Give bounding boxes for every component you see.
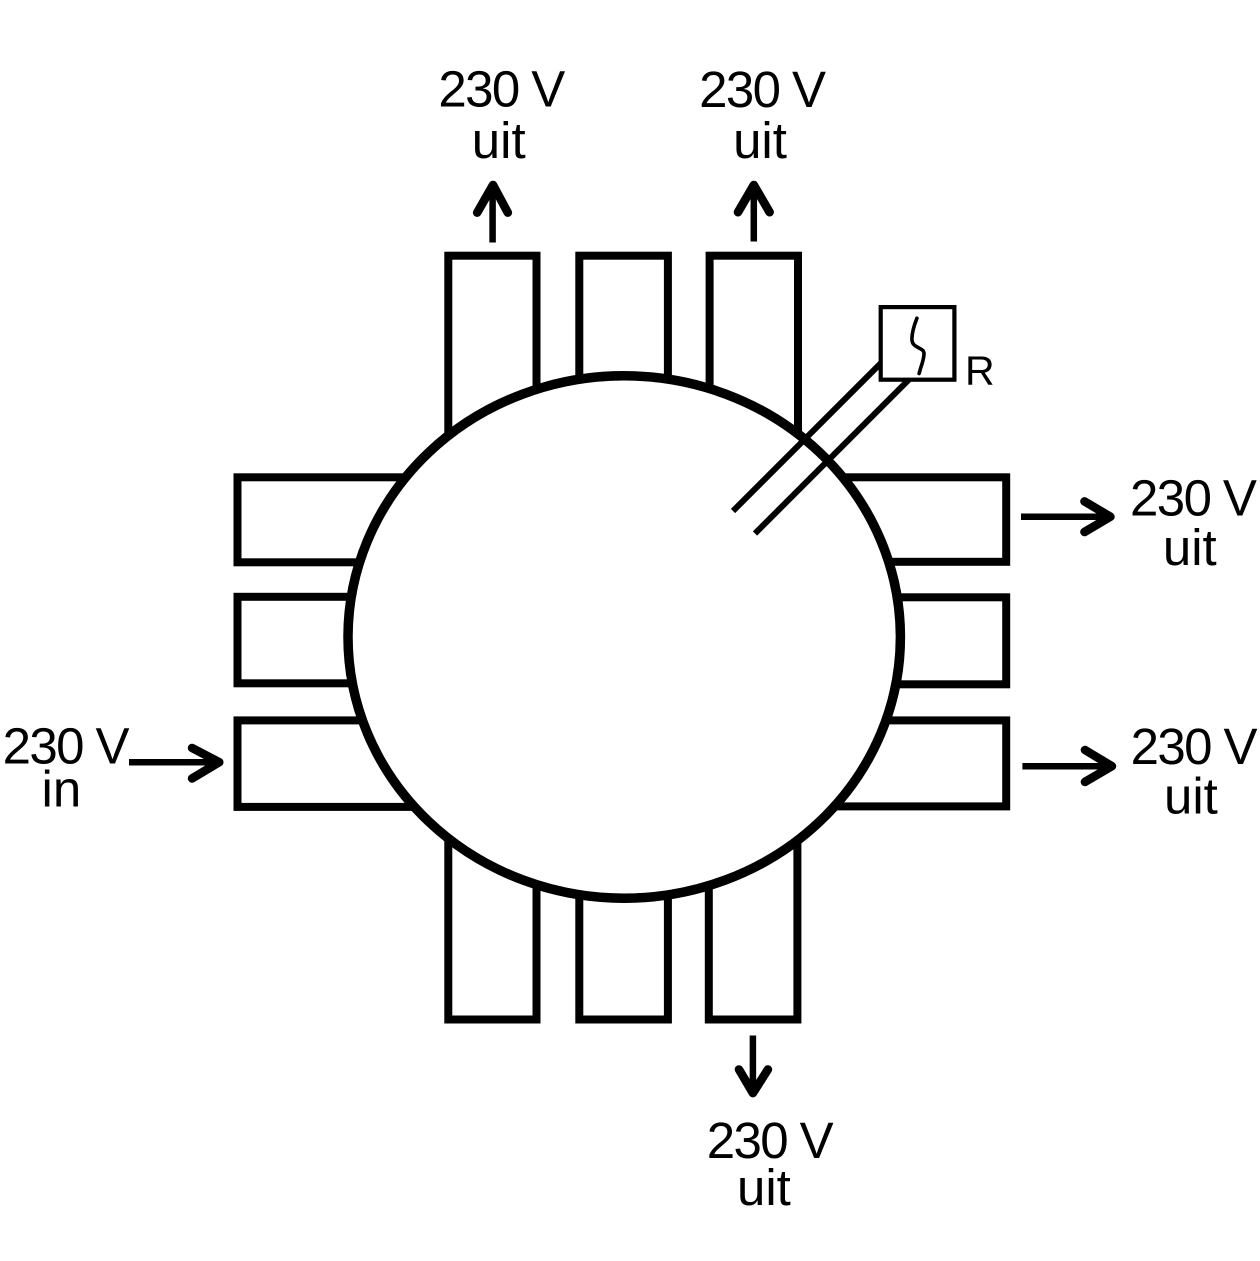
label 230V uit top-right: [699, 61, 826, 169]
terminal tab R1 right-top: [765, 477, 1006, 562]
arrow A3 right (right-top output): [1021, 501, 1110, 532]
resistor box R: [881, 307, 955, 380]
arrow A5 input (left): [129, 748, 219, 778]
terminal tab L2 left-middle: [238, 597, 480, 684]
terminal tab L3 left-bottom: [238, 720, 480, 807]
arrow A2 up (top-right output): [738, 185, 770, 242]
wire to R lower: [755, 377, 912, 534]
svg-text:230 V: 230 V: [699, 61, 826, 118]
terminal tab T3 top-right: [710, 256, 798, 501]
svg-text:uit: uit: [737, 1159, 791, 1216]
label 230V uit top-left: [438, 61, 565, 170]
resistor squiggle: [912, 318, 924, 373]
arrow A4 right (right-bottom output): [1022, 750, 1112, 782]
label 230V in left: [3, 717, 130, 817]
svg-text:uit: uit: [1164, 767, 1218, 824]
svg-text:230 V: 230 V: [438, 61, 565, 118]
arrow A1 up (top-left output): [477, 185, 508, 243]
stator circle: [348, 376, 900, 898]
terminal tab B1 bottom-left: [448, 775, 536, 1020]
svg-text:uit: uit: [1163, 519, 1217, 576]
svg-text:uit: uit: [472, 112, 526, 169]
terminal tab T1 top-left: [448, 256, 536, 501]
terminal tab B3 bottom-right: [709, 775, 798, 1020]
label 230V uit bottom: [707, 1112, 834, 1216]
terminal tab R3 right-bottom: [765, 720, 1006, 806]
arrow A6 down (bottom output): [739, 1036, 768, 1094]
wire to R upper: [733, 360, 884, 511]
svg-text:R: R: [965, 348, 995, 394]
terminal tab T2 top-middle: [579, 256, 668, 501]
label 230V uit right-top: [1130, 470, 1257, 576]
svg-text:uit: uit: [733, 112, 787, 169]
terminal tab B2 bottom-middle: [579, 775, 668, 1020]
svg-text:in: in: [42, 761, 82, 818]
terminal tab R2 right-middle: [765, 597, 1006, 684]
terminal tab L1 left-top: [238, 477, 480, 562]
label 230V uit right-bottom: [1131, 718, 1258, 824]
